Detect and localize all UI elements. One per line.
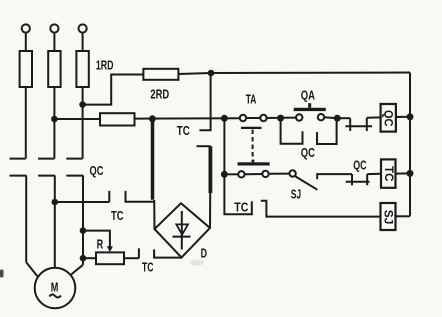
junction rail row1 <box>407 113 414 120</box>
start pushbutton right contact <box>262 171 268 177</box>
svg-text:TC: TC <box>382 166 396 182</box>
terminal L1 <box>22 24 30 32</box>
wire to TC plug left <box>55 201 110 203</box>
motor tilde <box>49 295 61 298</box>
svg-text:TC: TC <box>142 261 154 275</box>
wire L1 to fuse <box>25 33 27 51</box>
svg-text:QC: QC <box>90 164 104 178</box>
motor M body <box>35 268 76 309</box>
TC plug contact bottom right half <box>261 201 381 217</box>
transformer TC lead A (thick) <box>151 119 155 200</box>
TC plug contact bottom left half <box>224 174 251 214</box>
svg-text:M: M <box>51 280 59 295</box>
scan smudge left edge <box>0 270 4 278</box>
relay coil QC <box>381 104 396 132</box>
fuse 1RD pole 1 <box>20 51 32 87</box>
wire phase2 to control fuse <box>54 118 100 120</box>
SJ fixed contact and wire <box>317 174 352 179</box>
wire to rheostat wiper <box>83 231 110 248</box>
svg-text:SJ: SJ <box>381 210 395 225</box>
contactor QC main contact pole1 upper <box>10 158 26 160</box>
svg-text:R: R <box>97 237 104 251</box>
transformer TC lead B (thick) <box>208 146 212 193</box>
wire phase1 to motor <box>26 262 37 276</box>
wire phase2 fuse to QC contact <box>53 87 55 159</box>
start pushbutton stem <box>252 160 255 163</box>
wire to bridge left corner <box>153 200 155 229</box>
wire QA to junction <box>324 117 337 118</box>
left control rail <box>223 118 225 174</box>
wire phase3 fuse to QC contact <box>82 87 84 159</box>
wire phase3 lower <box>82 176 84 265</box>
pushbutton QA stem <box>308 103 311 108</box>
wire to rheostat <box>83 257 96 259</box>
right rail <box>409 73 411 217</box>
junction thick lead A <box>149 115 156 122</box>
contactor QC main contact pole2 upper <box>38 158 54 160</box>
svg-text:TC: TC <box>234 200 248 214</box>
rheostat wiper arrow <box>107 246 113 252</box>
SJ blade <box>295 176 317 189</box>
wire row1 feed <box>135 117 240 119</box>
junction phase3 rheostat <box>80 255 87 262</box>
wire junction to QC contact row1 <box>337 117 350 119</box>
svg-text:TC: TC <box>111 209 124 223</box>
junction phase2 TC branch <box>52 199 59 206</box>
bridge diode triangle <box>176 224 188 234</box>
junction QA right <box>334 115 341 122</box>
wire lead B to bridge right corner <box>209 193 211 228</box>
wire phase2 lower <box>54 176 56 268</box>
TC plug contact mid-left half1 <box>108 191 110 202</box>
junction TA-QA <box>277 115 284 122</box>
QC aux contact row2 <box>351 174 353 185</box>
TC plug contact mid-left half2 <box>126 191 155 202</box>
wire coil TC to rail <box>396 172 411 174</box>
svg-text:QC: QC <box>381 110 395 127</box>
start pushbutton head <box>238 162 270 165</box>
rheostat R body <box>96 252 124 264</box>
junction top TC branch <box>208 70 215 77</box>
contactor QC main contact pole3 lower <box>66 175 83 177</box>
pushbutton TA (NC) right contact <box>260 115 266 121</box>
wire phase1 fuse to QC contact <box>25 87 27 159</box>
pushbutton QA right contact <box>318 114 324 120</box>
wire TA to QA <box>267 117 296 119</box>
wire QC contact to coil QC <box>367 116 381 118</box>
TC plug contact bottom-mid half1 <box>138 248 140 258</box>
svg-text:TA: TA <box>246 92 257 106</box>
fuse 1RD pole 2 <box>48 51 60 87</box>
wire L2 to fuse <box>53 33 55 51</box>
QC aux contact row1 <box>349 118 351 131</box>
pushbutton QA head <box>294 108 326 111</box>
svg-text:2RD: 2RD <box>150 87 169 102</box>
wire coil SJ to rail <box>396 215 411 217</box>
fuse 2RD <box>143 69 178 80</box>
TC plug contact upper half <box>199 73 210 130</box>
svg-text:1RD: 1RD <box>96 57 114 72</box>
wire rail to start button <box>224 173 238 175</box>
svg-text:D: D <box>201 247 207 261</box>
wire rheostat to TC plug <box>124 257 139 259</box>
pushbutton TA bar <box>241 127 262 129</box>
svg-text:TC: TC <box>177 124 190 138</box>
junction left rail row2 <box>221 171 228 178</box>
scan smudge faint <box>190 260 204 266</box>
terminal L2 <box>50 24 58 32</box>
wire button to SJ <box>269 173 290 175</box>
contactor QC main contact pole1 lower <box>10 175 27 177</box>
fuse 1RD pole 3 <box>76 51 88 87</box>
svg-text:QC: QC <box>353 158 366 172</box>
QC holding contact right leg <box>317 120 337 144</box>
TC plug contact bottom-mid half2 <box>154 249 181 257</box>
junction rail row2 <box>407 170 414 177</box>
contactor QC main contact pole3 upper <box>66 158 82 160</box>
svg-text:QA: QA <box>301 88 315 102</box>
wire L3 to fuse <box>82 33 84 51</box>
bridge diode cathode bar <box>173 236 191 238</box>
time relay contact SJ pivot <box>289 170 295 176</box>
wire top rail <box>178 73 410 75</box>
junction phase3 to 2RD <box>79 101 86 108</box>
wire phase3 to fuse 2RD <box>83 75 144 105</box>
wire QC row2 to coil TC <box>367 173 381 175</box>
contactor QC main contact pole2 lower <box>38 175 55 177</box>
wire phase1 lower <box>25 176 27 263</box>
relay coil TC <box>381 159 396 187</box>
time relay coil SJ <box>381 203 396 230</box>
terminal L3 <box>79 24 87 32</box>
junction phase2 to control fuse <box>51 116 58 123</box>
bridge diode line <box>181 211 183 250</box>
TC plug contact lower half <box>197 145 211 147</box>
wire coil QC to rail <box>396 116 410 118</box>
QC holding contact left leg <box>281 120 303 144</box>
pushbutton TA (NC) left contact <box>240 115 246 121</box>
svg-text:QC: QC <box>301 146 315 160</box>
wire TA bridge <box>246 117 260 119</box>
wire start button bridge <box>245 173 263 175</box>
wire phase3 to motor <box>71 265 83 275</box>
junction left rail top <box>221 115 228 122</box>
junction phase3 wiper <box>80 227 87 234</box>
fuse control <box>100 113 135 125</box>
start pushbutton left contact <box>238 171 244 177</box>
rectifier bridge D body <box>155 203 211 257</box>
svg-text:SJ: SJ <box>291 187 301 201</box>
pushbutton QA left contact <box>296 114 302 120</box>
mechanical link TA <box>252 130 254 160</box>
